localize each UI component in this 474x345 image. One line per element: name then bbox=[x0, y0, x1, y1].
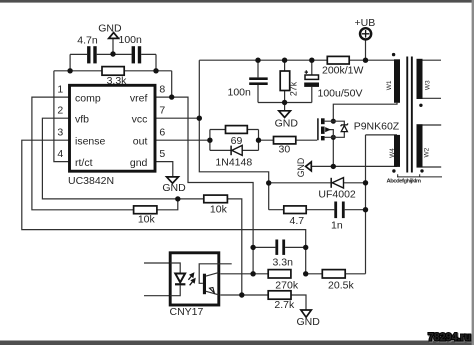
svg-text:P9NK60Z: P9NK60Z bbox=[354, 121, 400, 133]
svg-text:7: 7 bbox=[159, 105, 165, 117]
svg-text:out: out bbox=[133, 135, 148, 147]
svg-text:2: 2 bbox=[57, 105, 63, 117]
svg-text:GND: GND bbox=[297, 316, 321, 328]
svg-text:1n: 1n bbox=[331, 220, 343, 232]
svg-text:W4: W4 bbox=[389, 148, 396, 158]
svg-text:W2: W2 bbox=[423, 147, 430, 157]
svg-text:UC3842N: UC3842N bbox=[68, 175, 114, 187]
svg-text:GND: GND bbox=[296, 158, 306, 178]
svg-text:Abcdefghijklm: Abcdefghijklm bbox=[387, 179, 421, 185]
svg-text:10k: 10k bbox=[138, 214, 156, 226]
svg-text:4.7n: 4.7n bbox=[77, 34, 98, 46]
svg-text:W3: W3 bbox=[424, 80, 431, 90]
svg-text:CNY17: CNY17 bbox=[170, 306, 204, 318]
svg-text:100n: 100n bbox=[119, 34, 143, 46]
svg-text:8: 8 bbox=[159, 83, 165, 95]
svg-text:vref: vref bbox=[130, 92, 148, 104]
svg-text:W1: W1 bbox=[386, 80, 393, 90]
svg-text:5: 5 bbox=[159, 148, 165, 160]
svg-text:rt/ct: rt/ct bbox=[75, 157, 93, 169]
svg-text:6: 6 bbox=[159, 127, 165, 139]
svg-text:isense: isense bbox=[75, 135, 106, 147]
svg-text:2.7k: 2.7k bbox=[274, 299, 295, 311]
svg-text:vfb: vfb bbox=[75, 114, 89, 126]
svg-text:3: 3 bbox=[57, 127, 63, 139]
svg-text:100u/50V: 100u/50V bbox=[318, 87, 363, 99]
svg-text:UF4002: UF4002 bbox=[318, 189, 356, 201]
svg-text:GND: GND bbox=[98, 23, 122, 35]
svg-text:comp: comp bbox=[75, 92, 101, 104]
svg-text:gnd: gnd bbox=[130, 157, 148, 169]
svg-text:GND: GND bbox=[162, 182, 186, 194]
svg-text:+UB: +UB bbox=[355, 17, 376, 29]
svg-text:69: 69 bbox=[231, 135, 243, 147]
svg-text:4: 4 bbox=[57, 148, 63, 160]
svg-text:4.7: 4.7 bbox=[289, 215, 304, 227]
svg-text:30: 30 bbox=[279, 143, 291, 155]
svg-text:3.3n: 3.3n bbox=[272, 257, 293, 269]
svg-text:1: 1 bbox=[57, 83, 63, 95]
svg-text:3.3k: 3.3k bbox=[107, 75, 128, 87]
svg-text:270k: 270k bbox=[275, 280, 299, 292]
svg-text:vcc: vcc bbox=[132, 114, 148, 126]
svg-text:10k: 10k bbox=[210, 203, 228, 215]
svg-text:20.5k: 20.5k bbox=[328, 280, 354, 292]
svg-text:100n: 100n bbox=[228, 86, 252, 98]
svg-text:1N4148: 1N4148 bbox=[215, 157, 252, 169]
svg-text:200k/1W: 200k/1W bbox=[322, 65, 364, 77]
svg-text:78294.ru: 78294.ru bbox=[428, 331, 471, 343]
svg-text:27k: 27k bbox=[288, 81, 298, 96]
svg-text:GND: GND bbox=[275, 118, 299, 130]
